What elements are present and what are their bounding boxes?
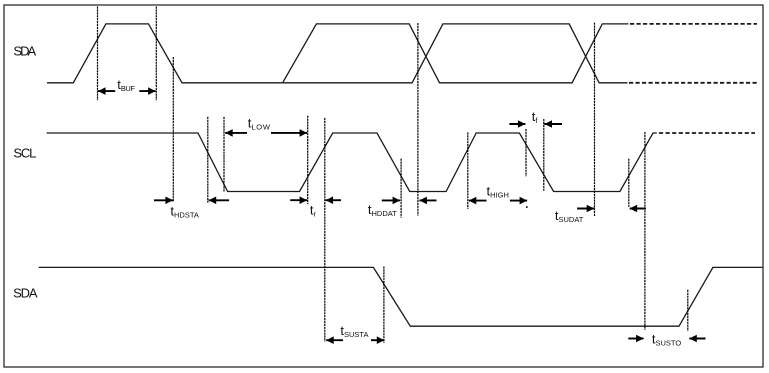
svg-text:SDA: SDA (13, 44, 36, 59)
svg-text:SCL: SCL (13, 145, 36, 160)
tLOW label (248, 115, 271, 131)
tSUSTO label (652, 331, 681, 347)
label SCL (13, 145, 36, 160)
measurement line tSUDAT right (628, 159, 630, 207)
tSUDAT dimension arrows (577, 205, 646, 213)
tBUF label (117, 77, 135, 93)
tf dimension arrows (509, 120, 562, 128)
tf label (532, 109, 539, 125)
tLOW dimension arrows (225, 129, 307, 137)
measurement line tLOW right / tr left (307, 116, 309, 204)
SDA top waveform main trace (47, 24, 628, 83)
stray dot (526, 206, 528, 208)
measurement line tr right / tSUSTA left (long) (324, 118, 326, 342)
measurement line tHDSTA left (172, 57, 174, 201)
tSUSTO dimension arrows (628, 335, 705, 343)
tr label (310, 203, 317, 219)
label SDA (bottom) (13, 286, 38, 301)
measurement line tSUSTO right (687, 290, 689, 331)
measurement line tSUDAT left (long from SDA crossover) (594, 23, 596, 216)
SCL dashed continuation high (659, 132, 755, 134)
measurement line tHDDAT left (400, 159, 402, 218)
measurement line tBUF left (97, 7, 99, 101)
tSUDAT label (555, 208, 584, 224)
measurement line tBUF right (155, 7, 157, 101)
tBUF dimension arrows (98, 87, 156, 95)
tr dimension arrows (290, 196, 341, 204)
SCL waveform (47, 133, 657, 192)
tHDDAT dimension arrows (382, 197, 437, 205)
measurement line tf right (543, 119, 545, 191)
measurement line tSUSTO left (long) (644, 132, 646, 330)
tSUSTA label (340, 323, 368, 339)
tHDSTA dimension arrows (154, 197, 229, 205)
tHIGH dimension arrows (469, 197, 527, 205)
measurement line tSUSTA right (383, 267, 385, 343)
label SDA (top) (13, 44, 36, 59)
SDA bottom waveform (39, 267, 763, 326)
tSUSTA dimension arrows (326, 336, 384, 344)
measurement line tHDSTA right (207, 117, 209, 203)
tHDSTA label (170, 203, 199, 219)
SDA top waveform complement trace (283, 24, 629, 83)
tHIGH label (487, 183, 509, 199)
tHDDAT label (368, 202, 397, 218)
SDA top dashed continuation low (629, 82, 757, 84)
svg-text:SDA: SDA (13, 286, 38, 301)
measurement line tHDDAT right (long from SDA crossover) (417, 23, 419, 216)
measurement line tHIGH left (467, 132, 469, 209)
measurement line tLOW left (223, 117, 225, 193)
measurement line tHIGH right / tf left (525, 129, 527, 176)
SDA top dashed continuation high (630, 23, 757, 25)
